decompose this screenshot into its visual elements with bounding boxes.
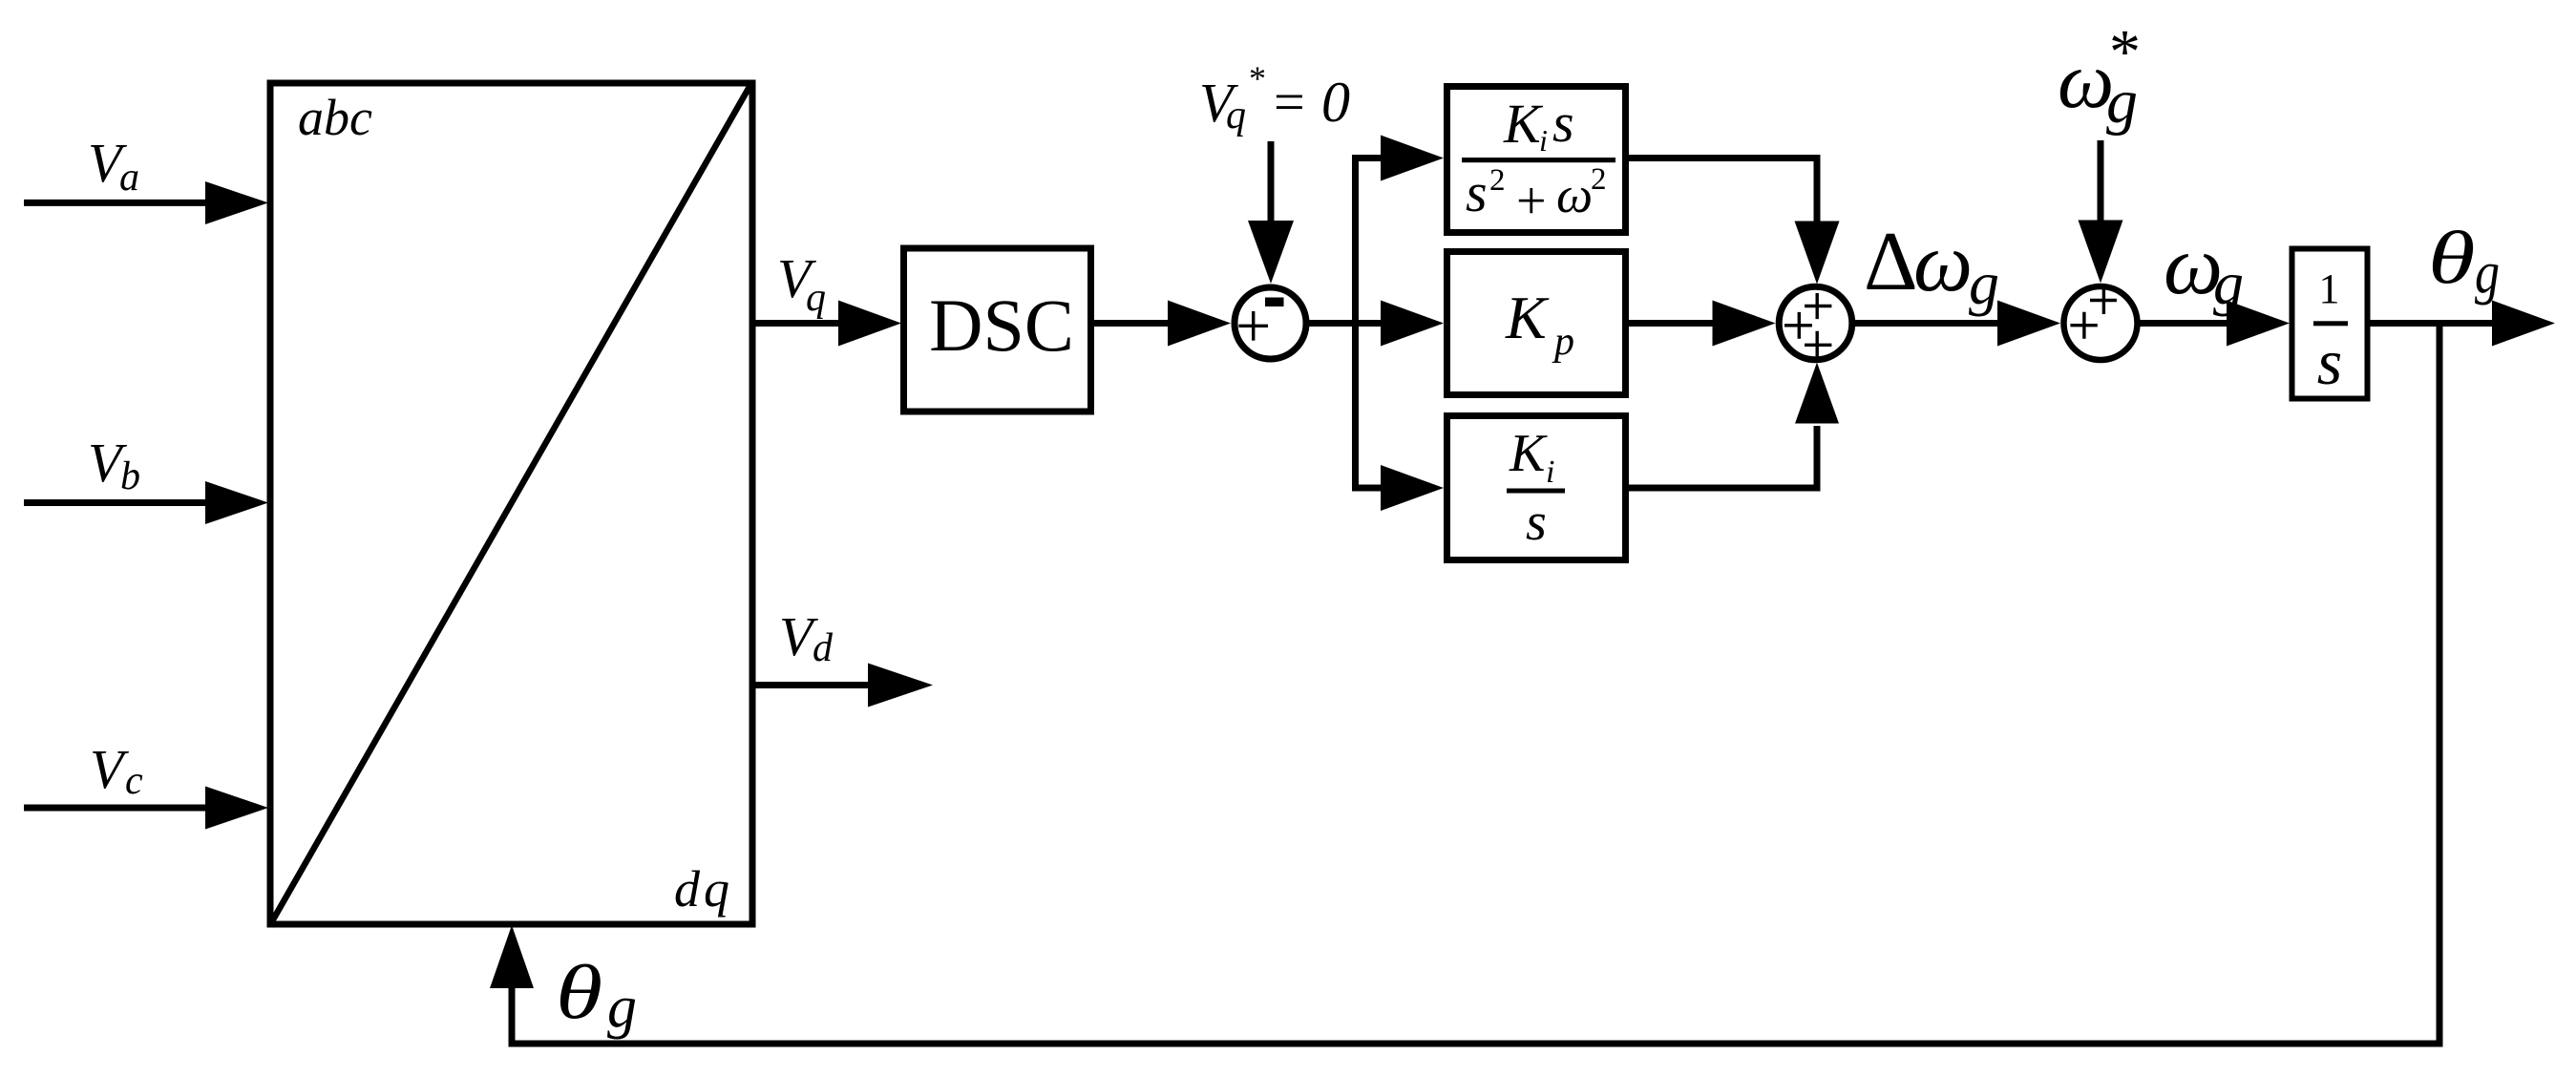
svg-text:θ: θ [2428, 217, 2476, 300]
arrowhead G1 down into S2 [1795, 222, 1840, 285]
arrowhead into G1 [1381, 136, 1444, 181]
wire S3 to 1/s (omega g) [2136, 320, 2230, 327]
diagonal of abc/dq block [272, 85, 750, 921]
svg-text:i: i [1546, 454, 1554, 490]
arrowhead feedback up into abc/dq [490, 925, 534, 988]
integrator block 1/s box [2292, 249, 2368, 399]
wire DSC to S1 [1092, 320, 1170, 327]
svg-text:+: + [1516, 172, 1547, 231]
1/s fraction bar [2313, 321, 2348, 326]
wire G1 output to merge corner [1627, 158, 1817, 226]
proportional block G2 box (Kp) [1447, 252, 1626, 395]
G1 fraction bar [1462, 158, 1615, 162]
arrowhead Va into abc/dq [205, 181, 268, 224]
svg-text:1: 1 [2319, 265, 2340, 312]
svg-text:ω: ω [1913, 217, 1973, 309]
arrowhead omega g* down into S3 [2079, 221, 2123, 284]
G3 fraction bar [1507, 489, 1565, 494]
S1 minus sign [1265, 298, 1284, 307]
abc/dq transformation block U1 [270, 83, 752, 924]
svg-text:=: = [1274, 71, 1305, 133]
summing junction S2 circle [1779, 286, 1852, 360]
wire branch to G1 [1352, 155, 1383, 161]
svg-text:K: K [1503, 93, 1544, 155]
svg-text:*: * [1249, 59, 1266, 97]
wire Vc input [24, 805, 208, 812]
svg-text:p: p [1552, 320, 1574, 364]
svg-text:g: g [2475, 241, 2500, 306]
svg-text:s: s [2317, 326, 2342, 398]
svg-text:d: d [813, 626, 834, 670]
svg-text:g: g [607, 975, 637, 1040]
wire feedback bottom horizontal [509, 1041, 2443, 1047]
svg-text:i: i [1539, 123, 1548, 158]
wire Vb input [24, 499, 208, 506]
wire Vq output of abc/dq [750, 320, 840, 327]
svg-text:q: q [806, 276, 826, 320]
summing junction S3 circle [2064, 286, 2138, 360]
svg-text:Δ: Δ [1864, 216, 1918, 308]
wire Vd output of abc/dq [750, 682, 870, 688]
arrowhead Vq into DSC [838, 301, 901, 347]
arrowhead Vc into abc/dq [205, 787, 268, 830]
summing junction S1 circle [1235, 287, 1306, 359]
wire S1 to branch node [1305, 320, 1383, 327]
svg-text:ω: ω [1556, 166, 1593, 223]
DSC block U2 [904, 248, 1091, 412]
S2 plus sign left [1784, 312, 1812, 339]
arrowhead G3 up into S2 [1795, 363, 1839, 424]
svg-text:*: * [2109, 17, 2141, 87]
integral block G3 box (Ki/s) [1447, 416, 1626, 560]
svg-text:θ: θ [556, 949, 602, 1034]
wire omega g* reference drop [2098, 140, 2104, 222]
svg-text:b: b [120, 454, 140, 498]
wire G2 output to S2 [1627, 320, 1717, 327]
wire Va input [24, 200, 208, 206]
svg-text:abc: abc [298, 89, 372, 146]
wire branch to G3 [1352, 485, 1383, 492]
S3 plus sign top [2090, 288, 2117, 314]
arrowhead into G3 [1381, 465, 1444, 511]
S2 plus sign top [1805, 293, 1831, 319]
arrowhead delta-omega into S3 [1997, 301, 2060, 347]
wire S2 to S3 (delta omega g) [1850, 320, 2000, 327]
svg-text:2: 2 [1591, 162, 1607, 197]
wire G3 output to merge corner [1627, 426, 1817, 488]
svg-text:s: s [1526, 493, 1547, 552]
svg-text:s: s [1466, 161, 1488, 223]
wire 1/s to theta g output [2366, 320, 2494, 327]
wire feedback vertical left [509, 987, 516, 1047]
wire Vq* reference drop [1268, 141, 1275, 225]
S1 plus sign [1238, 311, 1268, 341]
S3 plus sign left [2070, 312, 2097, 339]
svg-text:a: a [119, 156, 139, 200]
wire branch vertical [1352, 158, 1359, 489]
svg-text:2: 2 [1489, 163, 1506, 198]
svg-text:0: 0 [1321, 71, 1350, 134]
svg-text:K: K [1509, 424, 1548, 483]
svg-text:g: g [1969, 249, 1999, 317]
arrowhead Vd output [868, 664, 933, 707]
svg-text:dq: dq [674, 860, 733, 918]
arrowhead Vb into abc/dq [205, 481, 268, 524]
arrowhead DSC output into S1 [1168, 301, 1231, 347]
arrowhead theta g output [2492, 301, 2555, 347]
S2 plus sign bottom [1805, 331, 1831, 358]
svg-text:DSC: DSC [929, 284, 1074, 367]
resonant block G1 box (Ki s / (s^2+w^2)) [1447, 87, 1626, 233]
svg-text:g: g [2213, 249, 2244, 317]
svg-text:q: q [1226, 94, 1246, 137]
arrowhead Vq* down into S1 [1248, 221, 1294, 284]
svg-text:c: c [125, 759, 143, 803]
wire feedback vertical right [2437, 324, 2443, 1041]
svg-text:s: s [1552, 92, 1574, 154]
arrowhead into G2 [1381, 301, 1444, 347]
arrowhead omega g into 1/s [2227, 301, 2290, 347]
arrowhead G2 into S2 [1713, 301, 1776, 347]
svg-text:K: K [1505, 284, 1550, 351]
